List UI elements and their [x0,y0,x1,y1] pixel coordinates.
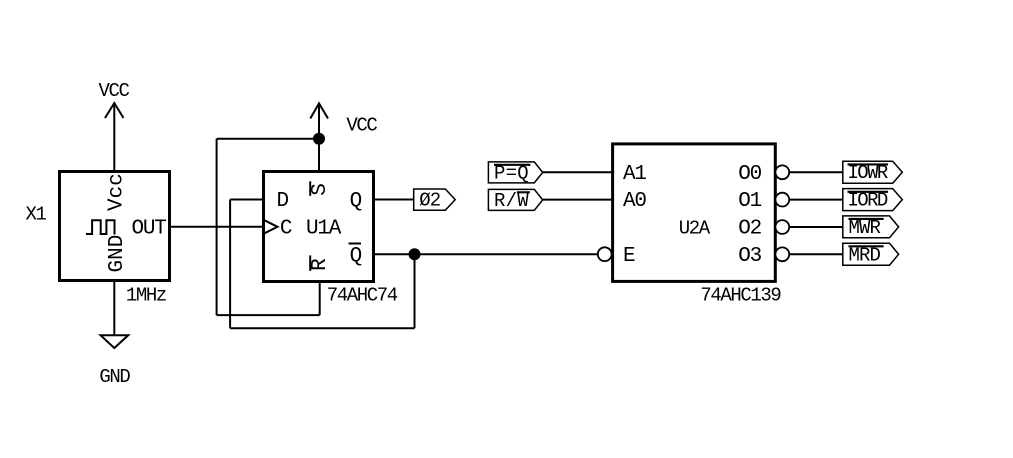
svg-text:D: D [277,190,289,213]
svg-text:1MHz: 1MHz [126,285,166,307]
wire O1 to IORD [789,199,843,201]
U2A output bubble O2 [775,220,789,234]
svg-text:O0: O0 [738,163,761,186]
svg-text:74AHC139: 74AHC139 [700,284,781,306]
svg-text:O1: O1 [738,190,761,213]
flip-flop U1A body [264,172,374,282]
wire Qbar junction down [414,254,416,328]
wire O2 to MWR [789,226,843,228]
U2A enable bubble [598,247,612,261]
oscillator X1 body [60,172,170,281]
svg-text:U1A: U1A [306,217,342,240]
wire U1A S pin to VCC junction [318,139,320,172]
junction Qbar node [409,248,421,260]
U1A clock input triangle [264,220,278,234]
svg-text:OUT: OUT [131,217,166,240]
global label MWR (active low) [843,216,899,239]
X1 clock waveform symbol [86,220,115,234]
U1A pin name Q-bar (active low) [349,244,362,268]
global label IORD (active low) [843,189,903,212]
wire U1A Q to label [374,199,414,201]
global label R/W (write active low) [488,189,542,212]
wire bottom to R pin [217,314,320,316]
U2A output bubble O1 [775,193,789,207]
svg-text:VCC: VCC [98,80,129,102]
svg-text:Ø2: Ø2 [419,190,441,212]
svg-text:R: R [309,258,332,271]
wire R/W to U2A A0 [543,199,613,201]
wire left loop down [216,139,218,315]
wire O0 to IOWR [789,171,843,173]
svg-text:GND: GND [99,366,130,388]
svg-text:74AHC74: 74AHC74 [327,285,398,307]
svg-text:X1: X1 [26,204,47,226]
svg-text:VCC: VCC [346,115,377,137]
svg-text:IORD: IORD [848,190,888,212]
svg-text:C: C [280,217,292,240]
wire D feedback bottom [230,327,414,329]
U2A output bubble O0 [775,165,789,179]
junction VCC node [313,133,325,145]
wire O3 to MRD [789,253,843,255]
svg-text:Q: Q [350,245,362,268]
wire X1 OUT to U1A C [170,226,264,228]
U1A pin name R (rotated, active low) [309,255,332,271]
U1A pin name S (rotated, active low) [309,181,332,196]
svg-text:O2: O2 [738,218,761,241]
svg-text:U2A: U2A [679,218,711,240]
wire P=Q to U2A A1 [543,171,613,173]
global label MRD (active low) [843,243,899,266]
power symbol VCC (above X1) [98,80,129,172]
svg-text:IOWR: IOWR [848,162,888,184]
svg-text:S: S [309,184,332,196]
svg-text:Q: Q [350,190,362,213]
decoder U2A body [613,144,776,282]
power symbol VCC (above U1A) [310,103,377,138]
global label O2 (phi-2) [414,189,456,212]
wire U1A Qbar to U2A E [374,253,598,255]
svg-text:O3: O3 [738,245,761,268]
svg-text:A1: A1 [623,163,646,186]
svg-text:Vcc: Vcc [106,173,129,211]
svg-text:A0: A0 [623,190,646,213]
global label IOWR (active low) [843,161,903,184]
ground symbol GND (below X1) [99,281,130,389]
U2A output bubble O3 [775,247,789,261]
svg-text:MWR: MWR [849,217,881,239]
wire D feedback down [229,200,231,329]
svg-text:GND: GND [106,235,129,273]
wire VCC junction left [217,138,319,140]
global label P=Q (active low) [488,162,542,185]
wire U1A D pin stub [230,199,263,201]
svg-text:MRD: MRD [849,244,881,266]
wire U1A R pin stub [319,282,321,316]
svg-text:E: E [623,245,635,268]
